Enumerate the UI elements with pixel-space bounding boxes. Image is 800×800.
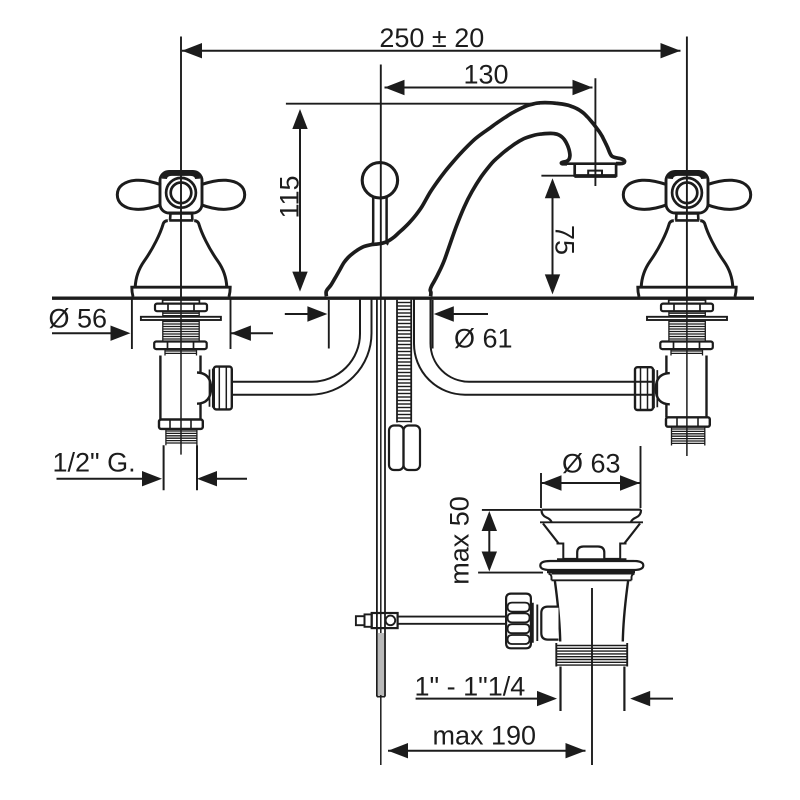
left valve tail threads [166, 429, 197, 445]
spout head top line [567, 162, 619, 165]
left valve centerline [180, 297, 182, 455]
svg-text:1/2" G.: 1/2" G. [53, 448, 136, 478]
max50 reference lines [482, 509, 541, 511]
left valve hex nut 2 [154, 342, 207, 350]
right handle ring inner [677, 183, 698, 204]
lift rod knob (ball) [362, 163, 397, 198]
drain gasket line [547, 571, 635, 574]
pop-up horizontal rod [398, 616, 506, 618]
left handle left lobe [117, 180, 161, 209]
right supply pipe to spout [414, 298, 653, 395]
left valve tailpipe 1/2G [164, 445, 197, 490]
lift rod (above deck) [372, 197, 389, 244]
left valve threaded shank [163, 311, 199, 341]
left handle right lobe [201, 180, 245, 209]
pop-up rod coupler right tab [404, 426, 421, 471]
max190 dimension [388, 743, 586, 758]
rod stub left [365, 614, 372, 626]
drain shelf line [563, 558, 620, 560]
left handle hub cap (black) [164, 173, 197, 178]
right valve elbow dome [656, 373, 670, 404]
spout body inner curve [430, 133, 570, 296]
deck / countertop line [52, 297, 754, 300]
dimension 75 [545, 178, 560, 294]
right handle hub cap (black) [670, 173, 703, 178]
dimension 115 reference line (spout top level) [286, 103, 540, 105]
right valve hex nut 2 [660, 342, 713, 350]
right valve washer [669, 300, 706, 303]
spout aerator box [575, 164, 616, 176]
left handle ring outer [166, 178, 196, 208]
svg-text:Ø 56: Ø 56 [49, 304, 108, 334]
right handle neck [675, 213, 699, 220]
right handle bell [641, 221, 733, 287]
Ø61 extension lines [328, 300, 330, 349]
left valve hex nut 3 [159, 420, 203, 429]
left valve union nut [214, 367, 232, 410]
drain collar [558, 559, 626, 561]
spout body outer curve [326, 103, 625, 297]
lift rod lower shaded segment [378, 633, 384, 695]
left valve hex nut 1 [155, 304, 207, 312]
dimension 130 [385, 80, 593, 95]
right valve tail threads [672, 427, 705, 446]
left valve washer [163, 300, 200, 303]
svg-text:Ø 61: Ø 61 [454, 324, 513, 354]
svg-text:1" - 1"1/4: 1" - 1"1/4 [415, 672, 526, 702]
left handle hub [160, 172, 202, 214]
Ø56 extension lines [131, 297, 133, 349]
right handle base skirt [638, 287, 736, 296]
left valve body tube [160, 356, 200, 420]
faucet centerline (below deck) [380, 297, 382, 766]
dimension 115 [292, 109, 307, 292]
1/2G arrows [57, 471, 248, 486]
drain tailpipe [561, 667, 625, 712]
left valve elbow dome [197, 373, 211, 404]
left valve flange [141, 317, 221, 320]
drain knurled nut [506, 594, 531, 649]
svg-text:max 190: max 190 [433, 721, 537, 751]
rod clamp screw [386, 616, 396, 626]
right handle right lobe [707, 180, 751, 209]
drain flange disk [540, 561, 643, 570]
rod clamp on lift rod [372, 613, 398, 628]
svg-text:250 ± 20: 250 ± 20 [379, 23, 484, 53]
drain rim [541, 510, 641, 522]
spout aerator bottom edge [574, 175, 616, 178]
right valve body tube [666, 356, 706, 418]
Ø56 left arrow [52, 326, 273, 341]
right valve union nut [635, 367, 653, 410]
right valve flange [647, 317, 727, 320]
drain lever ferrule [533, 603, 538, 643]
faucet centerline (top part) [380, 65, 382, 297]
drain plug dome [577, 547, 604, 559]
right handle ring outer [672, 178, 702, 208]
svg-text:130: 130 [463, 60, 508, 90]
right valve short threads [671, 349, 703, 355]
drain lever boss [541, 607, 558, 640]
right handle centerline / extension line [686, 37, 688, 297]
right valve hex nut 1 [661, 304, 713, 312]
drain rim bottom line [540, 521, 643, 523]
drain under ring [549, 574, 635, 581]
Ø61 arrows [285, 306, 488, 321]
drain body threads [556, 643, 627, 667]
drain centerline [591, 588, 593, 765]
1"-1"1/4 arrows [416, 691, 673, 706]
spout aerator notch [588, 171, 602, 176]
spout outlet extension line [594, 78, 596, 186]
left supply pipe to spout [232, 298, 372, 395]
right valve centerline [686, 297, 688, 457]
drain body [555, 580, 628, 641]
svg-text:75: 75 [550, 225, 580, 255]
svg-text:Ø 63: Ø 63 [562, 449, 621, 479]
right valve threaded shank [669, 311, 705, 341]
svg-text:max 50: max 50 [444, 496, 474, 585]
left handle neck [169, 213, 193, 220]
Ø63 extension lines [540, 473, 542, 508]
pop-up threaded rod [397, 300, 411, 423]
right handle hub [666, 172, 708, 214]
svg-text:115: 115 [275, 175, 305, 218]
left handle base skirt [132, 287, 230, 296]
right valve hex nut 3 [666, 417, 710, 426]
left handle centerline / extension line [180, 37, 182, 297]
right valve elbow ferrule [654, 369, 657, 408]
drain cone step [557, 544, 627, 559]
drain cone [543, 524, 640, 544]
left valve elbow ferrule [210, 369, 213, 408]
dimension 75 reference line (spout outlet level) [541, 175, 576, 177]
left valve short threads [165, 349, 197, 355]
left handle bell [135, 221, 227, 287]
Ø63 dimension [542, 475, 641, 490]
max50 arrows [482, 511, 497, 572]
left handle ring inner [171, 183, 192, 204]
lift rod below deck [376, 297, 378, 697]
dimension 250 ± 20 [182, 43, 681, 58]
pop-up rod coupler left tab [389, 426, 404, 471]
right handle left lobe [623, 180, 667, 209]
